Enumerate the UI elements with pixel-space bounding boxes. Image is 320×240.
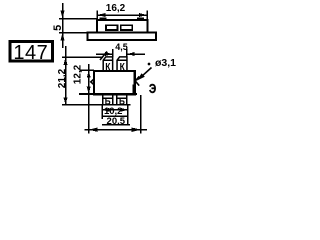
dim 10,2 ext right <box>127 105 129 124</box>
figure number box 147 <box>10 42 53 62</box>
crimp fold line <box>132 85 134 95</box>
pin K left divider <box>103 59 112 61</box>
flange outline <box>87 33 155 41</box>
svg-text:К: К <box>120 61 126 73</box>
body bottom ext left <box>79 93 137 95</box>
dim 21,2 ext top <box>62 56 103 58</box>
dim 5 line <box>62 3 64 48</box>
dim 20,5 arrow right <box>132 128 141 132</box>
dim 12,2 line (long, also ext for 20,5) <box>88 64 90 134</box>
dim 16,2 ext line left <box>96 11 98 20</box>
dim 21,2 arrow top <box>64 57 68 65</box>
svg-text:147: 147 <box>13 42 48 64</box>
dim 5 ext line top <box>59 18 97 20</box>
dim 16,2 line <box>97 14 148 16</box>
svg-text:16,2: 16,2 <box>106 3 126 14</box>
dim 10,2 ext left <box>101 105 103 119</box>
pin B right divider <box>117 97 127 99</box>
dim 4,5 ext right <box>126 49 128 57</box>
svg-text:12,2: 12,2 <box>73 64 84 84</box>
cap rib left <box>100 17 107 19</box>
dim 16,2 arrow left <box>97 13 106 17</box>
pin B right <box>117 95 127 105</box>
cap rib right <box>137 17 144 19</box>
dim 21,2 line <box>65 46 67 105</box>
svg-text:4,5: 4,5 <box>115 42 128 52</box>
pin K right <box>117 57 127 71</box>
svg-text:21,2: 21,2 <box>57 68 68 88</box>
dim 5 ext line bottom <box>59 32 87 34</box>
slot right <box>121 25 133 30</box>
body crimp left <box>91 79 94 85</box>
dim d3,1 dot <box>148 63 151 66</box>
pin B left <box>103 95 113 105</box>
dim 10,2 arrow right <box>120 108 128 112</box>
body crimp right <box>135 76 139 85</box>
dim 12,2 arrow bottom <box>87 87 91 94</box>
dim 16,2 ext line right <box>146 11 148 20</box>
dim 12,2 arrow top <box>87 71 91 78</box>
dim 4,5 slash <box>100 52 107 61</box>
dim 16,2 arrow right <box>139 13 148 17</box>
cap outline <box>97 20 148 33</box>
dim 5 arrow top (outside pointing down) <box>61 11 65 19</box>
dim 20,5 ext right (from body corner down) <box>140 95 142 134</box>
pin K right divider <box>117 59 127 61</box>
dim 20,5 arrow left <box>89 128 98 132</box>
dim 4,5 arrow right <box>127 52 135 56</box>
body top ext left <box>80 69 95 71</box>
dim 4,5 line left <box>96 53 113 55</box>
dim 4,5 ext left <box>112 49 114 57</box>
dim 10,2 arrow left <box>102 108 110 112</box>
divider line under 20,5 <box>102 124 130 126</box>
dim 10,2 line <box>102 109 128 111</box>
dim 20,5 line <box>85 129 148 131</box>
dim 21,2 arrow bottom <box>64 97 68 105</box>
dim 4,5 line right <box>127 53 145 55</box>
dim d3,1 leader arrow <box>137 73 145 80</box>
dim 21,2 ext bottom (long line under pins) <box>62 104 131 106</box>
body outline <box>94 71 135 94</box>
divider line under 10,2 <box>102 115 128 117</box>
dim 5 arrow bottom (outside pointing up) <box>61 33 65 41</box>
svg-text:К: К <box>105 61 111 73</box>
pin K left <box>103 57 112 71</box>
svg-text:Э: Э <box>149 82 156 96</box>
dim 4,5 arrow left <box>105 52 113 56</box>
pin B left divider <box>103 97 113 99</box>
svg-text:ø3,1: ø3,1 <box>155 57 176 69</box>
dim d3,1 leader <box>141 68 152 78</box>
slot left <box>106 25 118 30</box>
